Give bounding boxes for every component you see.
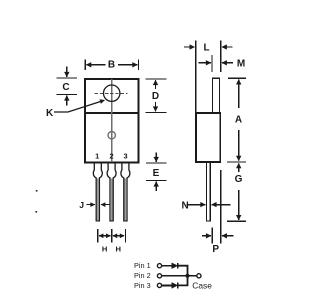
small circle [108, 132, 115, 139]
dimension J [79, 200, 110, 210]
junction dot [186, 274, 190, 278]
svg-text:M: M [237, 59, 245, 70]
dimension A [228, 78, 246, 160]
diode D1 [172, 263, 178, 269]
dimension G [227, 162, 246, 221]
svg-text:Case: Case [192, 281, 212, 291]
svg-text:N: N [182, 201, 189, 212]
svg-text:L: L [203, 43, 209, 54]
diode D2 [172, 283, 178, 289]
side view lead [207, 162, 211, 221]
svg-text:H: H [102, 245, 107, 254]
package body outline [85, 79, 139, 163]
stray dot 1 [36, 190, 38, 192]
svg-text:Pin 2: Pin 2 [134, 271, 151, 280]
side view tab [213, 78, 220, 113]
dimension M [199, 55, 246, 72]
dimension P [202, 170, 234, 255]
center vertical line [111, 79, 113, 162]
lead 2 [107, 163, 116, 221]
wire junction to case terminal [188, 275, 197, 277]
lead 1 [93, 163, 102, 221]
svg-text:G: G [235, 174, 243, 185]
pin 2 terminal [157, 274, 161, 278]
dimension C [57, 67, 78, 106]
svg-text:E: E [153, 168, 160, 179]
tab/body separation line [85, 112, 139, 114]
lead 3 [121, 163, 130, 221]
svg-text:2: 2 [109, 151, 113, 160]
svg-text:K: K [46, 108, 54, 119]
pin 3 terminal [157, 283, 161, 287]
svg-text:C: C [62, 82, 69, 93]
case terminal [197, 274, 201, 278]
wire pin2 to junction [162, 275, 188, 277]
hole crosshair dashed line [95, 92, 128, 94]
dimension B [85, 59, 138, 70]
svg-text:1: 1 [95, 151, 99, 160]
pin 1 terminal [157, 264, 161, 268]
label K with leader arrow [46, 100, 104, 119]
side view body [196, 113, 220, 162]
stray dot 2 [36, 211, 38, 213]
svg-text:Pin 3: Pin 3 [134, 281, 151, 290]
svg-text:Pin 1: Pin 1 [134, 261, 151, 270]
mounting hole [104, 85, 120, 101]
dimension N [182, 201, 231, 212]
svg-text:P: P [212, 244, 219, 255]
dimension H H [98, 229, 126, 253]
wire pin3 to diode D2 [162, 284, 172, 286]
dimension E [146, 153, 167, 192]
svg-text:H: H [116, 245, 121, 254]
wire pin1 to diode D1 [162, 265, 172, 267]
svg-text:J: J [79, 200, 84, 210]
svg-text:D: D [152, 91, 159, 102]
svg-text:3: 3 [123, 151, 127, 160]
wire diode D1 to bus [178, 266, 188, 276]
dimension L [184, 41, 233, 113]
svg-text:A: A [235, 115, 242, 126]
svg-text:B: B [108, 59, 115, 70]
wire diode D2 to bus [178, 276, 188, 286]
dimension D [146, 79, 167, 113]
